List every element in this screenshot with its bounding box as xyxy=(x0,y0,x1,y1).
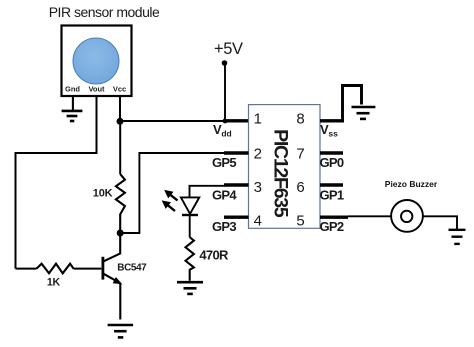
emitter arrowhead xyxy=(113,277,123,284)
ground (LED) xyxy=(177,282,203,294)
svg-text:Vcc: Vcc xyxy=(113,85,126,94)
node +5V junction xyxy=(223,119,228,124)
wire +5V xyxy=(224,64,226,121)
wire Vout net xyxy=(16,97,97,269)
svg-text:GP3: GP3 xyxy=(212,219,236,234)
svg-text:2: 2 xyxy=(254,146,262,163)
wire base segment xyxy=(16,268,37,270)
LED arrow 1 xyxy=(169,193,178,200)
resistor R3 470R xyxy=(186,237,194,281)
wire Vss to ground xyxy=(343,86,362,121)
svg-text:PIC12F635: PIC12F635 xyxy=(270,129,292,218)
svg-text:GP0: GP0 xyxy=(320,155,344,170)
wire Vdd rail xyxy=(120,120,225,122)
pin 2 stub GP5 xyxy=(224,151,249,154)
resistor R2 10K xyxy=(119,121,121,174)
svg-text:GP5: GP5 xyxy=(212,155,236,170)
svg-text:GP2: GP2 xyxy=(320,219,344,234)
svg-text:GP4: GP4 xyxy=(212,187,237,202)
node junction Vcc/Vdd/10K xyxy=(117,118,124,125)
+5V terminal dot xyxy=(222,60,228,66)
wire LED to resistor xyxy=(189,215,191,237)
svg-text:1K: 1K xyxy=(47,277,61,289)
ground (buzzer) xyxy=(449,230,466,244)
pin 4 stub GP3 xyxy=(224,215,249,218)
wire GP2 to buzzer xyxy=(348,215,391,217)
pin 3 stub GP4 xyxy=(224,183,249,186)
pin 6 stub GP1 xyxy=(320,183,343,186)
buzzer BZ1 xyxy=(391,200,423,232)
svg-text:8: 8 xyxy=(296,110,304,127)
LED D1 xyxy=(181,197,199,213)
svg-text:PIR sensor module: PIR sensor module xyxy=(49,4,160,20)
svg-text:Vout: Vout xyxy=(88,85,105,94)
LED cathode bar xyxy=(182,214,198,216)
wire GP4 to LED xyxy=(190,186,226,198)
svg-text:7: 7 xyxy=(296,146,304,163)
svg-text:4: 4 xyxy=(254,213,262,230)
svg-text:10K: 10K xyxy=(93,188,113,200)
ground (PIR Gnd) xyxy=(62,111,83,121)
wire to base xyxy=(74,268,102,270)
ground (emitter) xyxy=(108,325,134,337)
LED arrow 2 xyxy=(166,204,175,211)
PIR sensor module box xyxy=(62,26,132,97)
svg-text:3: 3 xyxy=(254,179,262,196)
node collector junction xyxy=(117,230,124,237)
pin 7 stub GP0 xyxy=(320,151,343,154)
pin 8 stub Vss xyxy=(320,119,344,122)
svg-text:470R: 470R xyxy=(199,247,229,262)
pin 5 stub GP2 xyxy=(320,215,348,218)
PIR lens xyxy=(73,38,119,84)
svg-text:5: 5 xyxy=(296,213,304,230)
svg-text:+5V: +5V xyxy=(214,40,243,58)
wire GP5 net xyxy=(122,153,225,233)
svg-text:Gnd: Gnd xyxy=(65,85,80,94)
wire Vcc pin xyxy=(119,97,121,122)
svg-text:6: 6 xyxy=(296,179,304,196)
transistor Q1 BC547 xyxy=(103,233,120,320)
ground (Vss) xyxy=(352,107,376,119)
pin 1 stub Vdd xyxy=(225,119,249,122)
wire buzzer to ground xyxy=(423,216,457,229)
svg-text:BC547: BC547 xyxy=(117,262,147,273)
svg-text:1: 1 xyxy=(254,110,262,127)
wire Gnd pin xyxy=(72,97,74,111)
svg-text:GP1: GP1 xyxy=(320,187,344,202)
svg-text:Piezo Buzzer: Piezo Buzzer xyxy=(385,179,438,189)
op IC U1 PIC12F635 box xyxy=(249,105,321,229)
resistor R1 1K xyxy=(37,264,74,274)
